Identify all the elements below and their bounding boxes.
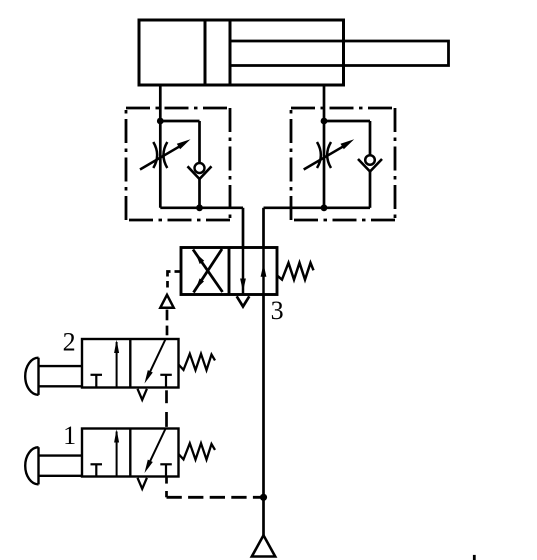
pilot wire: valve 1 down (dashed)	[165, 477, 168, 498]
check valve A	[188, 163, 212, 179]
valve V2 blocked port (left square)	[91, 375, 103, 388]
valve V2 body (3/2 push button valve)	[82, 339, 179, 388]
node: pilot/supply junction	[260, 494, 267, 501]
wire: A check branch lower	[198, 178, 201, 208]
flow control unit A enclosure (dash-dot)	[126, 108, 230, 220]
valve V1 exhaust port V	[138, 478, 147, 489]
check valve B	[358, 155, 382, 171]
valve V1 blocked port (left square)	[91, 464, 103, 476]
pilot triangle	[160, 295, 173, 308]
valve U3 spring	[277, 263, 314, 280]
cylinder piston rod	[230, 41, 449, 66]
wire: B top link	[324, 120, 370, 123]
wire: A check branch upper	[198, 121, 201, 164]
cylinder piston	[205, 20, 230, 85]
push button 2	[25, 358, 82, 395]
wire: B check branch lower	[369, 171, 372, 208]
cylinder body	[139, 20, 344, 85]
svg-text:2: 2	[63, 328, 76, 357]
throttle valve A (adjustable)	[140, 139, 191, 169]
node: junction B top	[321, 118, 328, 125]
valve V1 blocked port (right square)	[160, 464, 172, 476]
wire: flow control A output to valve 3 port A	[242, 208, 245, 248]
valve U3 crossed arrows (left square)	[193, 249, 223, 293]
wire: B check branch upper	[369, 121, 372, 156]
wire: B bottom link	[264, 206, 371, 209]
flow control unit B enclosure (dash-dot)	[291, 108, 395, 220]
artifact mark bottom right	[473, 555, 476, 560]
svg-text:3: 3	[271, 296, 284, 325]
node: junction A top	[157, 118, 164, 125]
valve V2 spring	[179, 354, 216, 370]
push button 1	[25, 447, 82, 484]
valve U3 straight arrows (right square)	[240, 248, 266, 295]
wire: supply riser	[262, 295, 265, 536]
valve V2 exhaust port V	[138, 389, 147, 400]
pilot wire: valve U3 left to pilot triangle (dashed)	[168, 272, 182, 288]
wire: cylinder right port through throttle branch B	[323, 85, 326, 208]
valve V1 flow arrow (left square)	[114, 429, 119, 476]
pilot wire: pilot triangle to valve 2 (dashed)	[166, 310, 169, 336]
svg-text:1: 1	[63, 421, 76, 450]
wire: flow control B output to valve 3 port B	[262, 208, 265, 248]
valve V2 blocked port (right square)	[160, 375, 172, 388]
pilot wire: horizontal run to supply riser (dashed)	[167, 496, 264, 499]
valve V2 exhaust diagonal arrow (right square)	[145, 339, 166, 384]
valve V1 spring	[179, 443, 216, 459]
valve U3 body (4/2 directional valve)	[181, 248, 277, 295]
valve V1 body (3/2 push button valve)	[82, 429, 179, 477]
throttle valve B (adjustable)	[304, 139, 355, 169]
wire: A bottom link	[160, 206, 243, 209]
valve V1 exhaust diagonal arrow (right square)	[145, 429, 166, 474]
node: junction B bottom	[321, 204, 328, 211]
node: junction A bottom	[196, 204, 203, 211]
supply source triangle	[252, 535, 275, 556]
pilot wire: valve 2 to valve 1 (dashed)	[165, 390, 168, 427]
valve U3 exhaust port V	[237, 296, 250, 306]
valve V2 flow arrow (left square)	[114, 340, 119, 388]
wire: cylinder left port through throttle branch A	[159, 85, 162, 208]
wire: A top link	[160, 120, 199, 123]
